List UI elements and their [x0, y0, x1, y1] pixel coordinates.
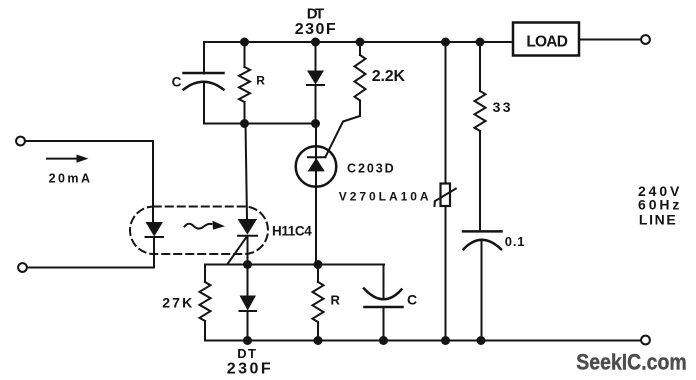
- svg-text:27K: 27K: [162, 294, 192, 310]
- svg-text:R: R: [331, 293, 341, 308]
- svg-text:2.2K: 2.2K: [372, 68, 406, 85]
- svg-text:33: 33: [493, 99, 511, 115]
- svg-text:H11C4: H11C4: [272, 223, 312, 238]
- svg-text:60Hz: 60Hz: [638, 197, 679, 213]
- svg-text:DT: DT: [237, 346, 256, 361]
- svg-text:20mA: 20mA: [49, 172, 90, 186]
- svg-text:0.1: 0.1: [505, 234, 525, 249]
- svg-text:230F: 230F: [227, 361, 271, 378]
- svg-text:C203D: C203D: [347, 161, 394, 175]
- svg-text:SeekIC.com: SeekIC.com: [576, 349, 686, 374]
- svg-text:230F: 230F: [295, 21, 336, 38]
- svg-text:V270LA10A: V270LA10A: [339, 189, 429, 203]
- svg-text:R: R: [256, 74, 265, 88]
- svg-text:LOAD: LOAD: [526, 33, 568, 50]
- svg-text:LINE: LINE: [639, 211, 676, 227]
- svg-text:C: C: [172, 75, 182, 90]
- svg-text:C: C: [407, 291, 417, 307]
